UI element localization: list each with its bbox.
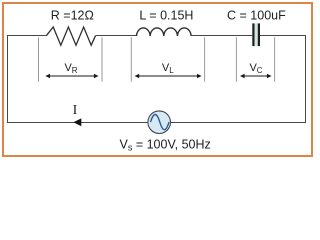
inductor L1 — [137, 28, 192, 36]
arrow VC — [240, 74, 272, 78]
svg-text:I: I — [73, 103, 78, 118]
node tick VC left — [235, 37, 237, 81]
node tick VR left — [38, 37, 40, 81]
wire resistor-to-inductor — [96, 35, 137, 37]
wire capacitor-to-right — [260, 35, 306, 37]
AC source V1 — [148, 111, 171, 134]
arrow current I — [73, 118, 81, 126]
wire bottom-right segment — [170, 122, 306, 124]
svg-text:C = 100uF: C = 100uF — [227, 9, 286, 23]
svg-text:Vs = 100V, 50Hz: Vs = 100V, 50Hz — [120, 138, 211, 153]
wire bottom-left segment — [7, 122, 148, 124]
svg-text:R =12Ω: R =12Ω — [51, 9, 94, 23]
wire top-left segment — [8, 35, 47, 37]
wire left side — [7, 35, 9, 123]
wire right side — [305, 35, 307, 123]
wire inductor-to-capacitor — [191, 35, 252, 37]
node tick VL left — [130, 37, 132, 81]
resistor R1 — [46, 27, 95, 45]
capacitor C1 — [253, 23, 259, 46]
node tick VR right — [101, 37, 103, 81]
svg-text:L = 0.15H: L = 0.15H — [139, 9, 193, 23]
arrow VR — [45, 74, 98, 78]
node tick VL right — [204, 37, 206, 81]
arrow VL — [135, 74, 202, 78]
node tick VC right — [274, 37, 276, 81]
